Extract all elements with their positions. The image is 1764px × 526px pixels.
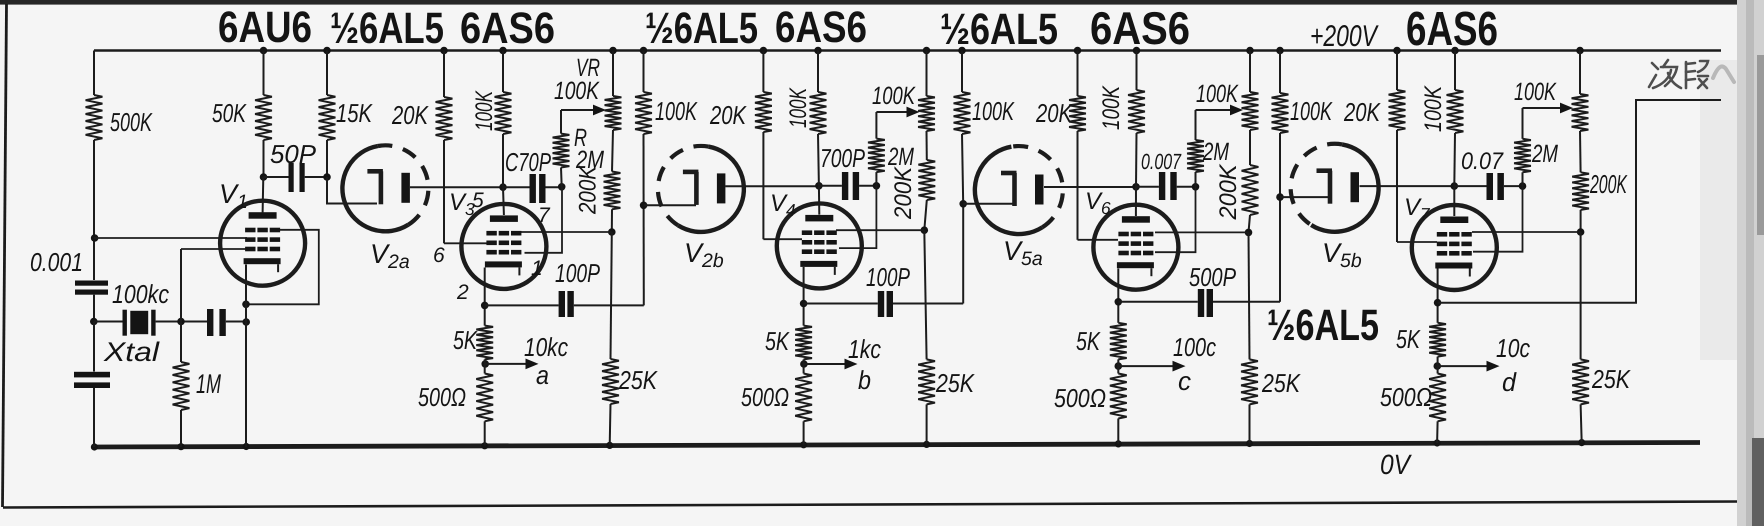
wire V4 suppressor grid (836, 229, 924, 231)
V7 tube envelope (1412, 205, 1497, 290)
node: V1 screen line junction (91, 234, 99, 242)
V2b cathode (717, 173, 726, 203)
V2a envelope (342, 146, 408, 231)
resistor 20K (stage2, to V4 grid1) (762, 51, 764, 93)
wire V2b cathode output (725, 185, 819, 187)
label: to next stage (Japanese) (1649, 60, 1708, 88)
0V ground bus wire (94, 443, 1700, 448)
resistor 5K (stage3) (1110, 323, 1127, 360)
node: V5b plate feed (1276, 193, 1284, 201)
V1 tube grids (245, 228, 255, 233)
wire coupling riser to V2b plate node (643, 205, 645, 305)
wire V5a cathode output (1044, 186, 1136, 188)
svg-text:0.07: 0.07 (1461, 148, 1504, 175)
output arrow b / 1kc (804, 363, 848, 365)
svg-text:½6AL5: ½6AL5 (330, 4, 444, 53)
V2b plate (683, 170, 699, 175)
node: V1 cathode junction (242, 301, 250, 309)
resistor 1M (grid leak) (180, 249, 182, 362)
node: V6 suppressor junction (1245, 229, 1253, 237)
V4 tube grids (802, 230, 812, 235)
node: output tap c (1115, 362, 1123, 370)
wire to V5b plate (1280, 196, 1330, 198)
svg-text:0V: 0V (1380, 449, 1412, 480)
V7 cathode wire (1437, 269, 1439, 323)
resistor 500ohm (stage3) (1110, 374, 1127, 419)
V6 plate lead (1135, 187, 1137, 216)
V3 tube grids (486, 231, 496, 236)
V4 grid1 riser to coupling node (839, 186, 876, 248)
wire to V5a plate (963, 203, 1014, 205)
output arrow a / 10kc (485, 363, 529, 365)
V4 tube envelope (777, 203, 862, 288)
node: V5a plate feed (959, 200, 967, 208)
resistor 100K (V5b plate load) (1279, 51, 1281, 94)
svg-text:5K: 5K (765, 326, 790, 356)
V5b cathode (1351, 172, 1360, 202)
V7 plate lead (1453, 186, 1455, 216)
svg-text:½6AL5: ½6AL5 (645, 4, 758, 53)
resistor 2M (stage3) (1195, 110, 1197, 140)
svg-text:700P: 700P (820, 143, 865, 173)
svg-text:25K: 25K (1261, 368, 1301, 398)
svg-text:1: 1 (531, 257, 543, 280)
svg-text:200K: 200K (575, 165, 602, 215)
svg-text:100K: 100K (1098, 85, 1125, 130)
node: V7 grid coupling junction (1519, 182, 1527, 190)
V6 grid1 riser to coupling node (1155, 187, 1196, 252)
VR wiper arrow (stage1) (561, 109, 597, 111)
VR wiper arrow (stage4) (1523, 107, 1565, 109)
capacitor 700P (819, 185, 842, 187)
resistor 500K (grid bias divider) (93, 51, 95, 96)
V1 plate lead (262, 177, 265, 213)
V4 cathode wire (803, 267, 805, 326)
resistor 500ohm (stage1) (476, 374, 493, 422)
wire coupling riser to V5a plate node (962, 204, 964, 304)
capacitor 500P (1118, 301, 1198, 303)
resistor 2M (stage2) (875, 112, 877, 139)
resistor 20K (stage4, to V7 grid1) (1396, 51, 1398, 91)
scan border frame top (0, 0, 1764, 5)
svg-text:500Ω: 500Ω (418, 382, 466, 412)
V6 tube plate (1122, 216, 1150, 223)
svg-text:c: c (1178, 366, 1191, 396)
node: V6 grid coupling junction (1192, 183, 1200, 191)
resistor 2M (stage4) (1522, 108, 1524, 139)
resistor 5K (stage4) (1429, 323, 1446, 357)
node: V4 grid coupling junction (873, 182, 881, 190)
node: output tap a (481, 360, 489, 368)
wire coupling riser to V5b plate node (1279, 197, 1281, 302)
V4 tube plate (805, 215, 833, 222)
scan border frame left (3, 4, 7, 507)
wire V3 suppressor grid (521, 231, 612, 233)
svg-text:5K: 5K (453, 325, 478, 355)
resistor 100K (V2b plate load) (643, 51, 645, 93)
resistor 100K (V5a plate load) (961, 51, 963, 93)
svg-text:2M: 2M (887, 143, 914, 171)
svg-text:6AS6: 6AS6 (1090, 2, 1190, 54)
node: crystal line left (90, 318, 98, 326)
node: 1M junction on crystal line (177, 318, 185, 326)
svg-text:7: 7 (538, 204, 551, 227)
svg-text:a: a (536, 360, 549, 390)
V2a plate (367, 169, 383, 174)
svg-text:6AS6: 6AS6 (460, 4, 555, 53)
resistor 100K (V7 plate load, vertical label) (1454, 51, 1456, 91)
potentiometer VR 100K (stage3) (1249, 51, 1251, 93)
svg-text:100K: 100K (785, 87, 812, 128)
V5a envelope (975, 147, 1042, 234)
svg-text:0.001: 0.001 (30, 247, 83, 277)
V6 cathode wire (1117, 269, 1119, 323)
svg-text:500K: 500K (110, 107, 153, 137)
svg-text:100P: 100P (866, 262, 910, 292)
svg-text:100P: 100P (555, 258, 600, 288)
svg-text:200K: 200K (1215, 164, 1242, 221)
svg-text:500Ω: 500Ω (741, 382, 789, 412)
svg-text:6AU6: 6AU6 (218, 3, 312, 52)
node: V7 cathode (1434, 299, 1442, 307)
svg-text:100K: 100K (1514, 78, 1557, 106)
V3 cathode wire (484, 268, 486, 326)
svg-text:100K: 100K (972, 96, 1015, 126)
node: V4 plate / diode junction (815, 182, 823, 190)
V1 tube envelope (220, 201, 305, 286)
node: output tap d (1434, 362, 1442, 370)
resistor 15K (diode load) (326, 51, 328, 96)
resistor R 2M (stage1) (560, 110, 562, 134)
svg-text:0.007: 0.007 (1141, 149, 1182, 174)
svg-text:20K: 20K (1035, 98, 1073, 128)
svg-text:50K: 50K (212, 98, 247, 128)
crystal Xtal 100kc (94, 321, 123, 323)
B+ bus junction dots (260, 47, 268, 55)
wire 20K to V3 grid (444, 242, 487, 244)
V1 tube cathode (244, 258, 281, 264)
resistor 25K (stage3) (1249, 232, 1250, 359)
V3 tube envelope (461, 204, 546, 289)
svg-text:1M: 1M (196, 369, 221, 399)
svg-text:2M: 2M (1531, 140, 1558, 168)
capacitor (crystal series) (207, 309, 213, 336)
svg-text:2M: 2M (1202, 138, 1229, 166)
svg-text:500Ω: 500Ω (1380, 382, 1432, 412)
svg-text:10c: 10c (1496, 333, 1530, 363)
capacitor C70P (503, 186, 530, 188)
svg-text:100K: 100K (655, 96, 698, 126)
V3 plate lead (502, 187, 505, 215)
scan border frame bottom (3, 502, 1742, 508)
wire V1 screen grid to 500K column (94, 237, 247, 239)
V3 tube cathode (485, 261, 522, 267)
svg-text:100K: 100K (554, 77, 600, 105)
svg-text:25K: 25K (618, 365, 658, 395)
svg-text:50P: 50P (270, 139, 317, 169)
node: V3 suppressor junction (608, 228, 616, 236)
resistor 200K (stage3, vertical label) (1249, 130, 1251, 165)
scan streak artifacts right edge (1737, 0, 1764, 526)
B+ supply bus wire (94, 49, 1721, 52)
potentiometer VR 100K (stage4) (1579, 51, 1581, 95)
output wire to next stage (1438, 100, 1721, 303)
svg-text:100K: 100K (1420, 85, 1447, 132)
potentiometer VR 100K (stage1) (612, 51, 614, 97)
capacitor 100P st2 (804, 303, 878, 305)
svg-text:20K: 20K (709, 100, 747, 130)
resistor 25K (stage4) (1580, 232, 1582, 359)
svg-text:d: d (1502, 367, 1517, 397)
svg-text:C70P: C70P (505, 147, 551, 177)
node: V4 suppressor junction (921, 226, 929, 234)
resistor 500ohm (stage4) (1429, 374, 1446, 422)
resistor 50K (V1 plate load) (263, 51, 265, 96)
node: V7 suppressor junction (1577, 228, 1585, 236)
wire to V2b plate (644, 204, 696, 206)
V6 tube cathode (1117, 262, 1154, 268)
resistor 100K (V4 plate load, vertical label) (817, 51, 819, 93)
svg-text:100K: 100K (471, 90, 498, 131)
V4 plate lead (818, 186, 820, 215)
resistor 25K (stage2) (924, 230, 926, 359)
svg-text:5K: 5K (1396, 324, 1421, 354)
svg-text:½6AL5: ½6AL5 (940, 5, 1058, 54)
V1 cathode wire to ground (245, 265, 247, 448)
V3 grid1 riser to coupling node (525, 187, 563, 253)
node: V4 cathode (800, 300, 808, 308)
node: V2b plate feed (640, 202, 648, 210)
svg-text:20K: 20K (391, 100, 429, 130)
capacitor 0.07 (1454, 185, 1486, 187)
V6 tube envelope (1093, 205, 1178, 290)
svg-text:100c: 100c (1173, 332, 1216, 362)
capacitor 100P st1 (485, 304, 559, 306)
svg-text:6AS6: 6AS6 (775, 3, 867, 52)
svg-text:200K: 200K (1589, 169, 1628, 199)
capacitor 0.001 (grid coupling) (75, 281, 108, 286)
V7 tube cathode (1435, 263, 1472, 269)
wire V6 suppressor grid (1155, 231, 1249, 233)
node: V3 cathode (481, 302, 489, 310)
node: V3 grid coupling junction (558, 183, 566, 191)
resistor 5K (stage2) (795, 326, 812, 360)
svg-text:6AS6: 6AS6 (1406, 3, 1498, 56)
V2b envelope (678, 147, 744, 232)
node: V1 plate (260, 173, 268, 181)
resistor 20K (stage1, to V3 grid1) (443, 51, 445, 98)
svg-text:100K: 100K (1290, 96, 1333, 126)
potentiometer VR 100K (stage2) (926, 51, 928, 97)
V5b plate (1317, 168, 1333, 173)
resistor 100K (V6 plate load, vertical label) (1136, 51, 1138, 91)
V7 tube plate (1440, 217, 1468, 224)
resistor 20K (stage3, to V6 grid1) (1077, 51, 1079, 97)
node: V7 plate / diode junction (1451, 182, 1459, 190)
wire V7 suppressor grid (1472, 231, 1581, 233)
svg-text:Xtal: Xtal (103, 337, 160, 367)
svg-text:5K: 5K (1076, 326, 1101, 356)
V2a cathode (401, 173, 410, 203)
resistor 200K (stage2, vertical label) (926, 131, 928, 160)
V6 tube grids (1118, 232, 1128, 237)
output arrow c / 100c (1118, 365, 1176, 367)
svg-text:100K: 100K (1196, 80, 1239, 108)
V3 tube plate (490, 215, 518, 222)
capacitor 0.007 (1136, 186, 1159, 188)
ground bus junction dots (91, 443, 98, 450)
V4 tube cathode (800, 261, 837, 267)
V7 grid1 riser to coupling node (1473, 186, 1523, 252)
resistor 100K (V3 plate load, vertical label) (502, 51, 504, 93)
svg-text:500Ω: 500Ω (1054, 383, 1106, 413)
VR wiper arrow (stage3) (1196, 109, 1235, 111)
svg-text:10kc: 10kc (524, 332, 568, 362)
node: output tap b (800, 360, 808, 368)
output arrow d / 10c (1437, 365, 1490, 367)
svg-text:200K: 200K (890, 166, 917, 220)
resistor 5K (stage1) (476, 326, 493, 360)
svg-text:25K: 25K (935, 368, 975, 398)
svg-text:+200V: +200V (1310, 20, 1379, 53)
svg-text:5: 5 (472, 189, 484, 212)
svg-text:b: b (858, 365, 871, 395)
V5a cathode (1035, 175, 1044, 205)
node: cathode column crystal side (242, 318, 250, 326)
node: V2a plate feed (323, 173, 331, 181)
node: V6 cathode (1115, 298, 1123, 306)
svg-text:1kc: 1kc (848, 334, 881, 364)
V7 tube grids (1437, 232, 1447, 237)
capacitor 50P (264, 176, 289, 178)
resistor 25K (stage1) (611, 232, 612, 359)
V5b envelope (1311, 144, 1378, 231)
svg-text:½6AL5: ½6AL5 (1267, 301, 1379, 350)
svg-text:6: 6 (433, 244, 445, 267)
wire V1 control grid to 1M column (181, 248, 247, 250)
resistor 500ohm (stage2) (795, 374, 812, 422)
svg-text:100kc: 100kc (112, 279, 169, 309)
V1 tube plate (249, 212, 277, 219)
bypass capacitor to ground (left column) (93, 322, 95, 372)
wire 15K to V2a plate (327, 177, 377, 204)
resistor 200K (stage4, horizontal label) (1579, 131, 1582, 172)
node: V6 plate / diode junction (1132, 183, 1140, 191)
svg-text:100K: 100K (872, 82, 916, 110)
wire V2a cathode output (410, 186, 503, 188)
svg-text:2: 2 (456, 281, 469, 304)
svg-text:20K: 20K (1343, 97, 1381, 127)
V5a plate (1001, 171, 1017, 176)
svg-text:15K: 15K (336, 98, 373, 128)
resistor 200K (stage1, vertical label) (612, 130, 613, 172)
node: V3 plate / diode junction (499, 183, 507, 191)
svg-text:500P: 500P (1189, 262, 1236, 292)
V1 suppressor return wire (right loop) (249, 230, 319, 304)
VR wiper arrow (stage2) (876, 111, 911, 113)
svg-text:25K: 25K (1591, 364, 1631, 394)
wire V5b cathode output (1360, 185, 1455, 187)
